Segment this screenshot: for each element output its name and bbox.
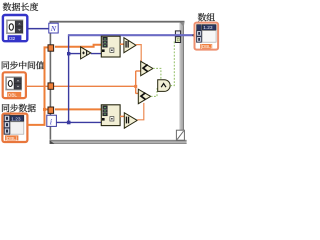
- wire iteration array out (purple thick) to output tunnel and 数组 indicator: [68, 34, 194, 36]
- junction dot on i wire at vertical: [67, 121, 71, 125]
- for-loop frame top border: [50, 20, 185, 22]
- increment function +1 (triangle): [81, 47, 91, 59]
- for-loop frame bottom border bar: [50, 140, 187, 144]
- array control terminal 同步数据 (DBL array, orange): [2, 114, 27, 142]
- absolute value 2 (triangle with bars): [124, 113, 137, 129]
- Index Array 2: [101, 105, 120, 126]
- label 数组: [198, 13, 215, 21]
- output tunnel 1 (iteration array out): [175, 31, 180, 37]
- comparator 2 Less or Equal? (triangle): [138, 89, 150, 104]
- array indicator 数组 (DBL array, orange): [195, 23, 219, 50]
- wire And out up to boolean tunnel (green dashed): [170, 42, 175, 86]
- wire i vertical (blue) from top purple corner down to i row: [68, 35, 70, 122]
- wire abs2 out up to comparator 2 (orange): [137, 103, 144, 120]
- tunnel A (array in, top): [48, 45, 54, 51]
- wire 同步中间值 outside+inside (thin orange) to comparators: [26, 71, 141, 94]
- svg-text:[DBL]: [DBL]: [6, 136, 18, 141]
- junction dot on i wire at increment branch: [67, 52, 70, 55]
- for-loop frame right border bar: [179, 22, 184, 131]
- wire 同步数据 array outside (thick orange): right, up to tunnel A, branch to tunnel C: [27, 47, 49, 125]
- N count terminal box: [49, 23, 58, 33]
- wire comparator1 out to And gate (green dashed): [153, 68, 161, 79]
- svg-text:DBL: DBL: [8, 92, 17, 97]
- terminal diamond at 数组 indicator input: [192, 32, 198, 38]
- absolute value 1 (triangle with bars): [124, 38, 136, 53]
- for-loop bottom-right resize corner: [176, 130, 184, 140]
- label 同步数据: [2, 104, 36, 112]
- wire increment row (blue) junction to +1 to Index Array 1 index: [69, 53, 102, 55]
- wire Index Array 2 out to abs2 (orange): [120, 115, 124, 117]
- label 数据长度: [3, 3, 38, 11]
- junction on array wire at tunnel C branch: [43, 108, 46, 111]
- numeric control terminal 同步中间值 (DBL, orange): [3, 72, 26, 98]
- wire abs1 out down to comparator 1 (orange): [136, 45, 141, 62]
- i iteration terminal box: [47, 115, 57, 126]
- tunnel C (array in, bottom): [48, 107, 54, 113]
- comparator 1 Less? (triangle): [141, 61, 153, 75]
- wire i row (blue) i terminal to Index Array 2 index: [56, 121, 101, 123]
- Index Array 1: [101, 36, 120, 57]
- wire comparator2 out to And gate (green dashed): [151, 89, 158, 97]
- output tunnel 2 (boolean out): [175, 37, 180, 43]
- wire array row2 inside (thick orange) tunnel C to Index Array 2: [55, 108, 101, 110]
- wire Index Array 1 out to abs1 (orange): [120, 43, 124, 45]
- numeric control terminal 数据长度 (I32, blue): [3, 15, 27, 41]
- wire array row1 inside (thick orange) tunnel A to Index Array 1: [55, 45, 101, 47]
- label 同步中间值: [2, 61, 45, 69]
- for-loop frame left border: [50, 21, 52, 141]
- And gate: [158, 80, 170, 92]
- tunnel B (middle value in): [48, 83, 54, 89]
- svg-text:I32: I32: [9, 36, 16, 41]
- svg-text:N: N: [50, 24, 57, 33]
- junction on 中间值 wire: [134, 85, 137, 88]
- svg-text:[DBL]: [DBL]: [201, 44, 212, 49]
- wire 数据长度 to N (blue): [27, 28, 49, 30]
